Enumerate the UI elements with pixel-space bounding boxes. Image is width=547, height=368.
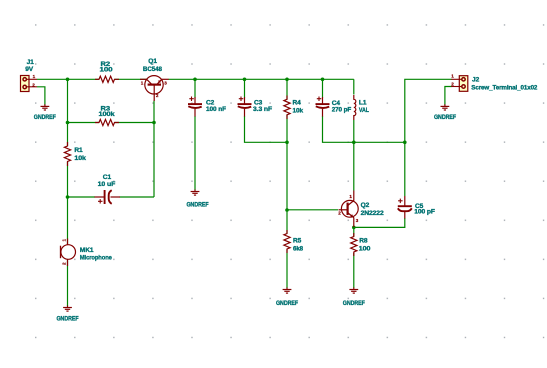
wire Q1 base column down bbox=[153, 101, 155, 198]
junction node C3 top bbox=[243, 78, 247, 82]
svg-text:9V: 9V bbox=[25, 66, 34, 73]
svg-text:100: 100 bbox=[100, 67, 114, 74]
svg-text:MK1: MK1 bbox=[80, 247, 94, 254]
wire mic bottom to ground bbox=[67, 261, 69, 307]
wire C1 row left bbox=[68, 196, 96, 198]
svg-text:Microphone: Microphone bbox=[80, 255, 112, 262]
svg-text:3: 3 bbox=[356, 218, 359, 223]
svg-text:Q1: Q1 bbox=[148, 58, 157, 65]
wire Q2 collector bbox=[353, 142, 355, 190]
ground GNDREF J2 bbox=[441, 104, 450, 110]
svg-text:6k8: 6k8 bbox=[293, 245, 303, 252]
wire J2 pin2 to ground bbox=[445, 87, 452, 105]
svg-text:1: 1 bbox=[141, 80, 144, 85]
svg-text:3: 3 bbox=[164, 80, 167, 85]
transistor Q2 bbox=[339, 191, 359, 228]
wire C4 bottom to mid rail right bbox=[323, 116, 405, 142]
junction node Q1 base / R3 bbox=[152, 121, 156, 125]
capacitor C2 bbox=[188, 97, 202, 117]
ground GNDREF J1 bbox=[41, 104, 50, 110]
connector J2 bbox=[451, 76, 468, 92]
wire L1 bottom stub bbox=[353, 120, 355, 142]
svg-text:J2: J2 bbox=[472, 77, 480, 84]
wire Q2 base row bbox=[287, 209, 338, 211]
svg-text:100 nF: 100 nF bbox=[206, 106, 226, 113]
svg-text:1: 1 bbox=[62, 239, 67, 242]
svg-text:10k: 10k bbox=[293, 107, 304, 114]
svg-text:1: 1 bbox=[33, 74, 36, 79]
svg-text:1: 1 bbox=[349, 194, 352, 199]
wire mic top bbox=[67, 197, 69, 244]
wire R4 top stub bbox=[286, 79, 288, 99]
svg-text:2: 2 bbox=[32, 82, 35, 87]
svg-text:Q2: Q2 bbox=[361, 202, 370, 209]
ground GNDREF R8 bbox=[349, 288, 358, 294]
svg-text:2: 2 bbox=[156, 93, 159, 98]
wire R4 bottom to Q2 base junction bbox=[286, 115, 288, 210]
resistor R8 bbox=[351, 233, 357, 256]
connector J1 bbox=[21, 76, 38, 92]
junction node C1/mic bbox=[66, 195, 70, 199]
transistor Q1 bbox=[140, 76, 169, 101]
svg-text:GNDREF: GNDREF bbox=[434, 114, 456, 121]
junction node C3/R4 mid bbox=[285, 141, 289, 145]
resistor R3 bbox=[95, 119, 119, 125]
resistor R2 bbox=[95, 76, 119, 82]
svg-text:R4: R4 bbox=[293, 100, 302, 107]
wire C3 top stub bbox=[244, 79, 246, 97]
wire C1 row right bbox=[120, 196, 155, 198]
resistor R1 bbox=[64, 142, 70, 166]
wire J2 pin1 column bbox=[405, 79, 452, 142]
junction node C5/J2 mid bbox=[403, 141, 407, 145]
junction node R4/Q2 base bbox=[285, 208, 289, 212]
svg-text:R5: R5 bbox=[293, 238, 302, 245]
svg-text:100: 100 bbox=[359, 245, 371, 252]
svg-text:270 pF: 270 pF bbox=[332, 106, 352, 113]
svg-text:10k: 10k bbox=[74, 155, 86, 162]
wire R5 top bbox=[286, 210, 288, 234]
junction node R4 top bbox=[285, 78, 289, 82]
svg-text:GNDREF: GNDREF bbox=[187, 201, 209, 208]
wire emitter row to C5 column bbox=[354, 218, 405, 227]
svg-text:100k: 100k bbox=[99, 111, 115, 118]
junction node R3/R1 bbox=[66, 121, 70, 125]
wire R3 row right to Q1 base column bbox=[115, 122, 155, 124]
svg-text:3.3 nF: 3.3 nF bbox=[253, 106, 272, 113]
svg-text:BC548: BC548 bbox=[143, 66, 162, 73]
wire J1 pin1 to junction bbox=[37, 78, 68, 80]
svg-text:C1: C1 bbox=[103, 174, 112, 181]
microphone MK1 bbox=[61, 239, 76, 267]
svg-text:2: 2 bbox=[338, 211, 341, 216]
svg-text:VAL: VAL bbox=[359, 107, 369, 114]
svg-text:2: 2 bbox=[451, 81, 454, 86]
capacitor C5 bbox=[398, 196, 412, 219]
svg-text:2: 2 bbox=[62, 262, 67, 265]
svg-text:R1: R1 bbox=[74, 147, 83, 154]
capacitor C4 bbox=[316, 97, 330, 117]
resistor R5 bbox=[284, 230, 290, 253]
wire R2 to Q1 bbox=[115, 78, 148, 80]
resistor R4 bbox=[284, 96, 290, 120]
inductor L1 bbox=[354, 95, 356, 120]
wire left rail below R1 bbox=[67, 162, 69, 197]
ground GNDREF R5 bbox=[283, 288, 292, 294]
wire L1 top stub bbox=[353, 79, 355, 94]
junction node C4 top bbox=[321, 78, 325, 82]
wire C5 top to mid rail bbox=[404, 142, 406, 196]
capacitor C1 bbox=[95, 190, 121, 204]
wire R3 row left bbox=[68, 122, 100, 124]
wire R8 bottom to ground bbox=[353, 253, 355, 288]
wire left rail vertical bbox=[67, 79, 69, 146]
ground GNDREF mic bbox=[63, 306, 72, 312]
junction node J1/R2 bbox=[66, 78, 70, 82]
wire J1 pin2 down to ground bbox=[37, 87, 45, 105]
svg-text:L1: L1 bbox=[359, 100, 367, 107]
junction node C2 top bbox=[193, 78, 197, 82]
wire R5 bottom to ground bbox=[286, 250, 288, 289]
wire C3 bottom to mid rail bbox=[245, 116, 288, 142]
wire R2 row bbox=[68, 78, 100, 80]
svg-text:1: 1 bbox=[451, 74, 454, 79]
svg-text:GNDREF: GNDREF bbox=[343, 300, 365, 307]
svg-text:GNDREF: GNDREF bbox=[34, 114, 56, 121]
svg-text:10 uF: 10 uF bbox=[98, 181, 116, 188]
wire Q2 emitter junction to R8 bbox=[353, 227, 355, 237]
svg-text:R8: R8 bbox=[359, 237, 368, 244]
wire C2 top stub bbox=[194, 79, 196, 97]
capacitor C3 bbox=[238, 97, 252, 117]
wire C4 top stub bbox=[322, 79, 324, 97]
svg-text:2N2222: 2N2222 bbox=[361, 210, 384, 217]
svg-text:GNDREF: GNDREF bbox=[57, 316, 79, 323]
ground GNDREF C2 bbox=[191, 190, 200, 196]
wire top rail Q1 to L1 bbox=[169, 78, 354, 80]
svg-text:Screw_Terminal_01x02: Screw_Terminal_01x02 bbox=[471, 85, 537, 92]
junction node Q2 emitter / R8 bbox=[352, 226, 356, 230]
svg-text:GNDREF: GNDREF bbox=[276, 300, 298, 307]
wire C2 bottom to ground bbox=[194, 116, 196, 190]
junction node C4/L1 mid bbox=[352, 141, 356, 145]
svg-text:100 pF: 100 pF bbox=[414, 209, 435, 216]
